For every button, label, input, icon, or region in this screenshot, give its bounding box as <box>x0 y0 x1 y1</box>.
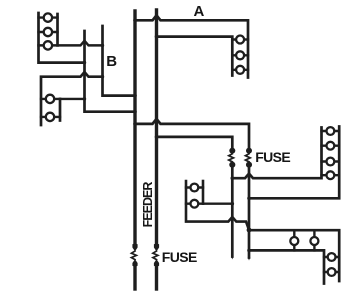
junction F1 / branch A <box>133 19 137 23</box>
junction F1 / main B1 <box>133 110 137 114</box>
lamp drop stub BR1 <box>293 230 295 250</box>
lamp RT3 <box>327 158 335 166</box>
lamp BR3 <box>328 253 336 261</box>
lamp drop stub BR2 <box>313 230 315 250</box>
junction main B1 / bank2 row1 <box>83 97 86 100</box>
wire: right-top bank right rail down and over to RV <box>249 127 339 199</box>
wire: branch main B1 (vertical) over to feeder F1 <box>85 31 136 112</box>
lamp row stub A3 <box>232 69 248 71</box>
wire: branch vertical LV below fuse, tapered end <box>231 167 234 257</box>
svg-text:FUSE: FUSE <box>255 149 290 165</box>
lamp bank1-3 <box>44 41 52 49</box>
fuse on branch vertical RV <box>246 148 252 168</box>
wire: right-top bank left rail down to line, hop over RV, to LV <box>232 128 321 179</box>
feeder conductor F2 lower segment below fuse <box>155 264 158 289</box>
wire: bottom-right top conductor from RV to right rail <box>249 230 339 281</box>
junction RV / right-top bank right line <box>247 197 251 201</box>
junction F2 / sub-feeder left <box>155 135 159 139</box>
lamp row stub bank1 row1 <box>39 16 58 18</box>
lamp A1 <box>236 36 244 44</box>
fuse on feeder F1 <box>132 243 137 266</box>
lamp RT4 <box>327 171 335 179</box>
lamp A3 <box>236 66 244 74</box>
lamp RT1 <box>327 127 335 135</box>
wire: middle bank left rail down, hop over LV, jog to RV <box>186 181 249 230</box>
junction LV / right-top bank line <box>231 176 235 180</box>
wire: middle bank lamp row2 extended to LV <box>186 202 232 204</box>
lamp row stub RT4 <box>322 174 340 176</box>
wire: sub-feeder left conductor from F2 down to fuse LV <box>157 137 233 149</box>
wire: branch main B2 (vertical) over to feeder F1 <box>103 26 136 96</box>
lamp M2 <box>191 200 199 208</box>
fuse on branch vertical LV <box>229 148 235 168</box>
lamp BR4 <box>328 268 336 276</box>
wire: bank2 lamp row2 <box>41 116 60 118</box>
svg-text:FUSE: FUSE <box>162 249 197 265</box>
junction main B1 / bank1 line <box>83 61 86 64</box>
lamp row stub BR3 <box>324 256 339 258</box>
lamp A2 <box>236 51 244 59</box>
wire: middle bank right rail <box>202 181 205 204</box>
lamp BR2 <box>310 237 318 245</box>
wire: bank1 left rail down and over to main B1 <box>39 13 85 63</box>
junction F1 / sub-feeder <box>133 122 137 126</box>
wire: bank1 lamp row 3 line, hop over main B1, to main B2 <box>39 41 103 46</box>
lamp row stub bank1 row2 <box>39 31 58 33</box>
svg-text:FEEDER: FEEDER <box>141 182 155 228</box>
lamp M1 <box>191 184 199 192</box>
lamp bank2-2 <box>46 113 54 121</box>
wire: bank2 lamp row1 line extending to main B1 <box>41 98 85 100</box>
svg-text:A: A <box>194 3 205 20</box>
fuse on feeder F2 <box>154 243 159 266</box>
wire: middle bank lamp row1 <box>186 186 203 188</box>
junction RV / bottom-right top conductor <box>247 228 252 233</box>
lamp bank1-1 <box>44 13 52 21</box>
lamp row stub RT3 <box>322 160 340 162</box>
wire: branch vertical RV below fuse, tapered end <box>248 167 251 258</box>
feeder conductor F1 lower segment below fuse <box>133 264 136 289</box>
lamp row stub RT1 <box>322 130 340 132</box>
junction main B2 / bank2 line <box>101 75 104 78</box>
lamp row stub A2 <box>232 54 248 56</box>
lamp BR1 <box>290 237 298 245</box>
junction RV / bottom-right bottom conductor <box>247 249 251 253</box>
wire: bank2 left rail with top line, hop over main B1, to main B2 <box>41 72 103 125</box>
lamp row stub RT2 <box>322 144 340 146</box>
junction LV / middle bank row2 <box>231 202 235 206</box>
junction F2 / branch A lower <box>155 35 159 39</box>
lamp row stub BR4 <box>324 271 339 273</box>
svg-text:B: B <box>106 53 117 70</box>
lamp RT2 <box>327 142 335 150</box>
feeder conductor F2 (right feeder wire) <box>155 10 158 246</box>
wire: branch A top conductor from F1, hop over F2, to right rail <box>135 15 248 77</box>
lamp bank2-1 <box>46 95 54 103</box>
wire: bank2 right rail <box>59 99 62 121</box>
feeder conductor F1 (left feeder wire) <box>133 11 136 246</box>
lamp row stub A1 <box>232 38 248 40</box>
wire: sub-feeder right conductor from F1, hop over F2, down to fuse RV <box>135 119 249 149</box>
wire: bank1 right rail <box>56 14 59 45</box>
lamp bank1-2 <box>44 28 52 36</box>
wire: bottom-right bottom conductor from RV to left rail <box>249 250 324 283</box>
junction F1 / main B2 <box>133 94 137 98</box>
junction main B2 / bank1 row3 line <box>101 44 104 47</box>
wire: branch A lower conductor from F2 to left rail <box>157 37 233 76</box>
